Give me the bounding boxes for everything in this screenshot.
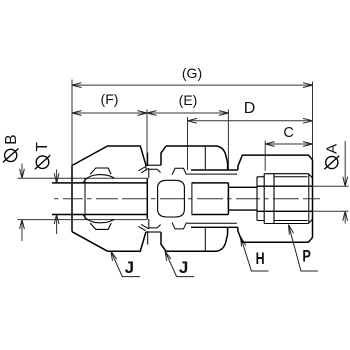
- extension line right end (x=312.5): [312, 82, 314, 160]
- nut J2 top edge and right chamfer: [166, 146, 228, 170]
- nut J2 bottom edge and right chamfer: [166, 227, 228, 251]
- svg-text:J: J: [125, 258, 134, 277]
- port flange verticals: [264, 174, 274, 224]
- bore behind ball to sleeve end: [192, 183, 229, 215]
- nut J1 opening bore bottom: [52, 214, 147, 216]
- thread root lines: [274, 177, 308, 221]
- dimension line (G): [72, 84, 313, 86]
- ledge between nuts bottom: [146, 231, 161, 233]
- extension line C left (x=265.2): [264, 141, 266, 171]
- center line: [54, 198, 320, 200]
- nut J2 mouth step top: [149, 169, 161, 172]
- part outline: thick strokes: [52, 146, 313, 251]
- nut J1 opening bore top (thick): [52, 182, 147, 184]
- inner face in J1 (x=85.5): [84, 178, 86, 219]
- nut J2 interior hex edge bottom: [204, 227, 206, 251]
- neck top/bottom between sleeve end and port: [228, 187, 257, 210]
- dimension label phi T: [35, 155, 50, 169]
- dimension line D: [188, 120, 313, 122]
- port bore lines (phi A): [257, 186, 313, 211]
- svg-text:B: B: [3, 134, 20, 144]
- hex H top edge with chamfers: [238, 155, 313, 170]
- hex H right face: [312, 160, 314, 238]
- sleeve face between nuts (x=147.3): [146, 178, 148, 219]
- shank top line: [191, 169, 238, 171]
- shank end face behind ball: [191, 183, 193, 215]
- ball cap bottom in J2: [172, 222, 187, 229]
- ball cap top in J2: [172, 168, 187, 175]
- port ring 1: [257, 177, 264, 221]
- extension line F/E junction (x=147): [146, 110, 148, 167]
- collar wedges bottom: [138, 219, 148, 231]
- shank secondary bottom line: [187, 222, 237, 224]
- leader P: [289, 225, 319, 271]
- port flange outline top: [264, 174, 312, 178]
- nut J2 mouth step bottom: [149, 225, 161, 228]
- dimension phi-T vertical: [56, 170, 58, 235]
- svg-text:T: T: [34, 142, 51, 152]
- svg-text:P: P: [302, 246, 311, 265]
- phi-B extension lines: [18, 178, 148, 219]
- ferrule dome bottom in J1: [83, 215, 114, 223]
- port end chamfer witness line: [308, 174, 310, 224]
- svg-text:(E): (E): [179, 92, 198, 108]
- dimension line (E): [147, 112, 228, 114]
- dimension phi-B vertical: [21, 164, 23, 242]
- shank bottom line: [191, 226, 238, 228]
- nut J1 left face: [71, 166, 73, 232]
- nut J1 bottom chamfer and bottom edge: [72, 232, 146, 252]
- leader H: [241, 237, 269, 271]
- leader J1: [111, 251, 140, 276]
- dimension label phi A: [324, 156, 339, 170]
- nut J2 interior hex edge top: [204, 146, 206, 170]
- dimension line C: [265, 143, 312, 145]
- dimension phi-A vertical: [344, 141, 346, 224]
- svg-text:H: H: [256, 249, 265, 268]
- nut J1 right face upper: [145, 165, 147, 169]
- extension line left (x=72): [71, 80, 73, 166]
- dimension line (F): [72, 112, 147, 114]
- svg-text:D: D: [244, 100, 256, 117]
- nut J1 top chamfer and top edge: [72, 146, 146, 166]
- port flange outline bottom: [264, 219, 312, 223]
- hex H bottom edge with chamfers: [238, 227, 313, 242]
- sleeve tail end face (x=228.4): [227, 183, 229, 215]
- extension line D left (x=187.5): [187, 117, 189, 170]
- ferrule dome top in J1: [83, 175, 114, 183]
- nut J2 left face and chamfer: [161, 146, 166, 165]
- collar wedges top: [138, 167, 148, 179]
- svg-text:A: A: [324, 144, 341, 154]
- phi-A extension lines: [313, 186, 349, 211]
- ferrule cap bottom in J1: [90, 223, 111, 229]
- leader J2: [165, 251, 194, 276]
- svg-text:(G): (G): [182, 65, 202, 81]
- collar second vertical bottom: [147, 231, 149, 245]
- ball sleeve in J2: [158, 180, 185, 217]
- dimension label phi B: [3, 149, 18, 163]
- ferrule cap top in J1: [90, 168, 111, 174]
- svg-text:(F): (F): [101, 91, 119, 107]
- collar second vertical top: [147, 153, 149, 167]
- svg-text:J: J: [179, 258, 188, 277]
- shank secondary top line: [187, 173, 237, 175]
- ledge between nuts top: [146, 164, 161, 166]
- extension line E right (x=228.4): [227, 110, 229, 170]
- svg-text:C: C: [283, 125, 293, 141]
